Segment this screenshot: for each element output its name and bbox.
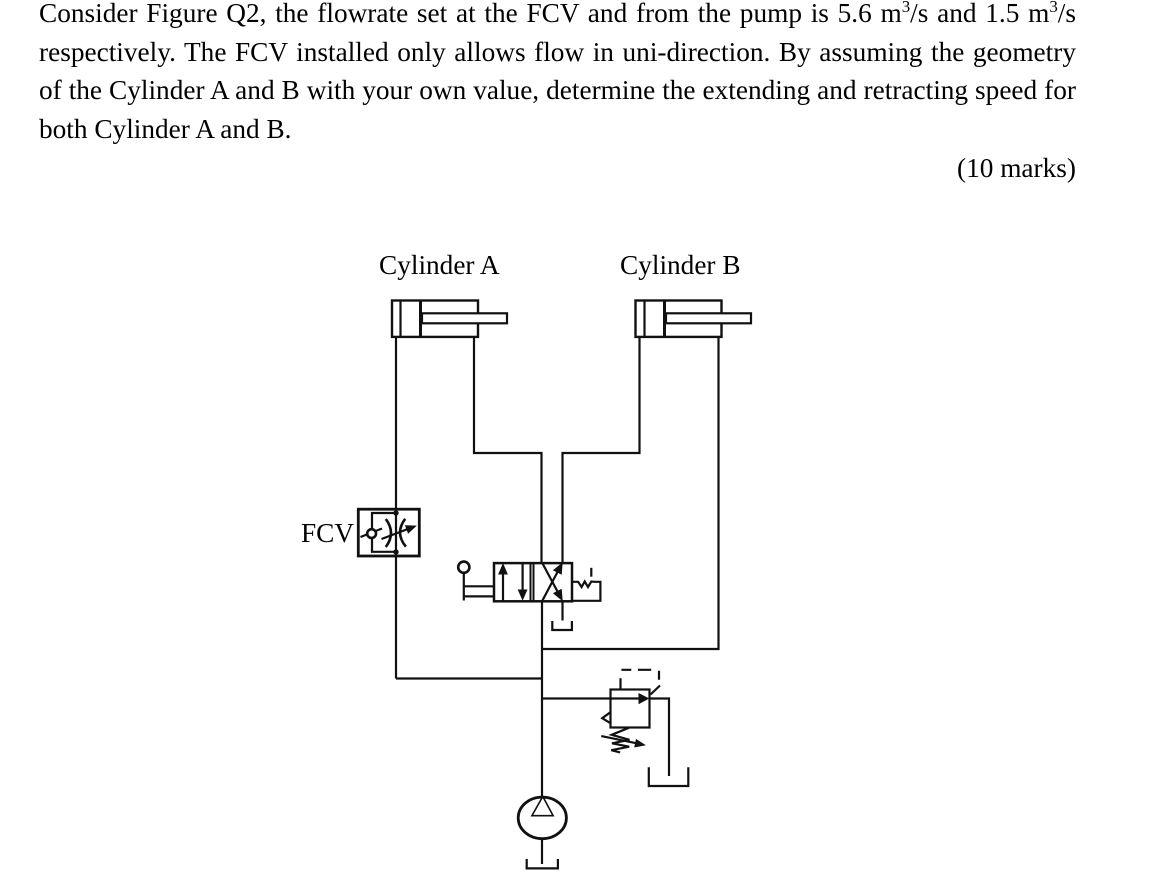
wire: branch to relief valve inlet xyxy=(542,697,611,699)
directional valve return spring xyxy=(572,582,600,601)
label Cylinder B xyxy=(620,252,741,279)
relief valve left vent arrowhead xyxy=(602,712,610,723)
directional valve lever links xyxy=(464,586,493,596)
directional valve left box up arrow xyxy=(498,563,508,601)
tank under relief valve xyxy=(649,767,689,786)
cylinder B rod xyxy=(666,313,751,323)
FCV adjustment arrow xyxy=(382,525,417,539)
wire: bottom-left horizontal to pump line xyxy=(396,677,542,679)
directional valve crossed arrow P to B xyxy=(542,562,563,601)
label Cylinder A xyxy=(379,252,500,279)
wire: pressure line from valve P-port down to pump xyxy=(541,602,543,797)
directional valve lever stem xyxy=(463,573,465,601)
cylinder A body xyxy=(392,300,478,338)
FCV junction dot top xyxy=(393,510,398,515)
directional valve body xyxy=(494,563,572,601)
wire: valve T-port to tank xyxy=(561,602,563,621)
directional valve left box down arrow xyxy=(518,564,528,601)
wire: branch to cylinder B right port xyxy=(542,338,719,650)
wire: cylinder B left port to valve B-port xyxy=(563,338,640,563)
tank under pump xyxy=(527,859,558,868)
wire: pump outlet below to suction tank xyxy=(541,840,543,864)
FCV check valve seat line xyxy=(361,529,383,538)
wire: relief valve outlet to tank xyxy=(650,699,670,777)
directional valve crossed arrow A to T xyxy=(542,563,563,602)
relief valve pilot dashed line xyxy=(621,670,660,690)
wire: cylinder A right port to valve A-port xyxy=(474,338,542,563)
relief valve spring xyxy=(611,728,629,753)
wire: cylinder A left port down through FCV to bottom-left corner xyxy=(395,338,397,679)
relief valve adjustment arrow xyxy=(601,736,646,747)
FCV check valve ball xyxy=(367,529,376,538)
pump triangle xyxy=(532,797,553,816)
tank under directional valve xyxy=(552,621,572,630)
cylinder B body xyxy=(636,300,722,338)
FCV variable restrictor arcs xyxy=(386,519,391,547)
relief valve box xyxy=(611,690,650,728)
relief valve flow arrow xyxy=(611,693,649,704)
cylinder A rod xyxy=(422,313,507,323)
directional valve position divider xyxy=(531,562,534,601)
label FCV xyxy=(301,520,354,547)
FCV flow control valve box xyxy=(358,509,419,556)
FCV junction dot bottom xyxy=(393,549,398,554)
FCV check-valve bypass loop xyxy=(372,513,396,552)
pump circle xyxy=(518,797,566,839)
directional valve lever knob xyxy=(458,562,469,573)
relief valve pilot diagonal tick xyxy=(651,686,661,695)
directional valve spring stub xyxy=(590,568,592,577)
